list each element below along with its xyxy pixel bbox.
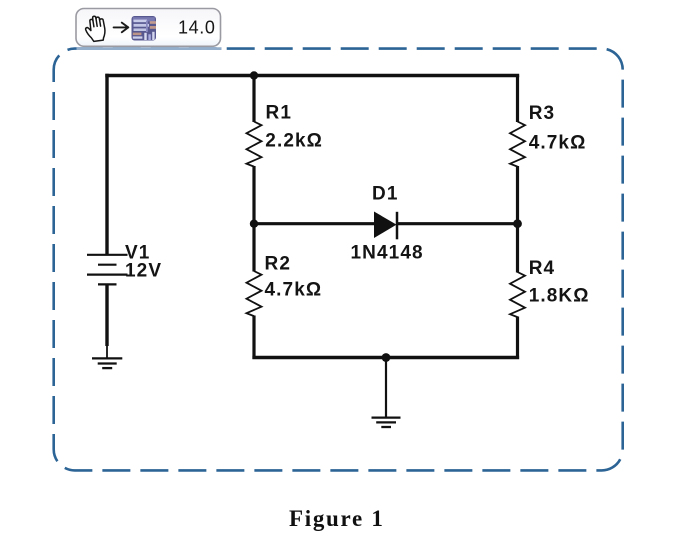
wire: R1 bottom lead (252, 166, 255, 224)
svg-text:4.7kΩ: 4.7kΩ (265, 279, 323, 300)
node: junction bottom-center (382, 353, 391, 362)
hand (pan) cursor icon (84, 15, 106, 42)
svg-text:4.7kΩ: 4.7kΩ (529, 132, 587, 153)
wire: R4 bottom lead (516, 317, 519, 360)
svg-text:R4: R4 (529, 258, 556, 279)
svg-text:12V: 12V (125, 261, 162, 282)
wire: bottom rail (252, 356, 519, 359)
svg-text:R3: R3 (529, 103, 556, 124)
wire: R4 top lead (516, 224, 519, 273)
wire: R2 top lead (252, 224, 255, 272)
grapher icon (132, 16, 157, 41)
resistor R1 (247, 122, 262, 167)
node: junction top (R1/top rail) (250, 71, 258, 79)
wire: battery to ground (105, 284, 108, 346)
diode D1 cathode bar (396, 212, 399, 240)
wire: R1 top lead (252, 76, 255, 123)
svg-text:R1: R1 (266, 103, 293, 124)
solid line under toolbar tab (77, 47, 222, 50)
svg-text:Figure 1: Figure 1 (289, 506, 385, 531)
diode D1 (374, 212, 397, 239)
wire: center ground stem (385, 358, 387, 418)
svg-text:14.0: 14.0 (178, 17, 215, 37)
wire: R2 bottom lead (252, 316, 255, 360)
svg-text:2.2kΩ: 2.2kΩ (265, 131, 323, 152)
ground (center) (372, 418, 401, 427)
dashed selection border (54, 49, 623, 471)
wire: left branch down to battery (105, 74, 108, 255)
wire: middle rail left of diode (254, 222, 375, 225)
battery V1 (87, 255, 128, 285)
resistor R4 (510, 272, 525, 317)
wire: R3 top lead (516, 76, 519, 123)
wire: middle rail right of diode (397, 222, 518, 225)
svg-text:1N4148: 1N4148 (351, 243, 424, 264)
node: junction middle-right (513, 219, 522, 228)
svg-text:1.8KΩ: 1.8KΩ (529, 286, 590, 307)
resistor R3 (510, 122, 525, 167)
resistor R2 (247, 271, 262, 316)
svg-text:R2: R2 (265, 253, 292, 274)
toolbar tab (76, 9, 221, 47)
arrow (114, 23, 129, 33)
svg-text:D1: D1 (372, 184, 399, 205)
ground (V1) (92, 358, 122, 368)
node: junction middle-left (250, 220, 258, 228)
wire: R3 bottom lead (516, 166, 519, 224)
wire: top rail (105, 74, 519, 77)
